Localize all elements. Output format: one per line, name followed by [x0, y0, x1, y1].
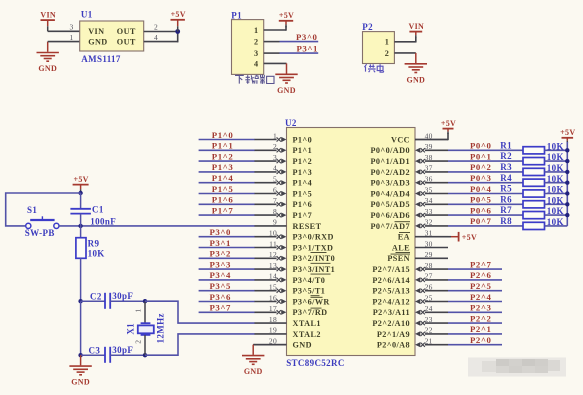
resistor R3 body [523, 168, 545, 175]
junction dot rail row 3 [565, 170, 569, 174]
junction dot rail row 1 [565, 148, 569, 152]
U2 pin 38 (P0^1/AD1) [370, 153, 448, 166]
svg-text:2: 2 [254, 38, 259, 47]
svg-text:2: 2 [273, 142, 277, 151]
junction dot crystal bottom [143, 353, 147, 357]
wire net P2^5 (pin 26) [448, 290, 502, 292]
svg-text:P0^5/AD5: P0^5/AD5 [370, 200, 410, 209]
U2 pin 37 (P0^2/AD2) [370, 164, 448, 177]
svg-text:P3^1/TXD: P3^1/TXD [293, 243, 334, 252]
wire net P3^7 (U2 pin 17) [199, 311, 255, 313]
svg-text:22: 22 [425, 326, 433, 335]
watermark mosaic [468, 358, 566, 377]
svg-text:P2^0/A8: P2^0/A8 [377, 341, 410, 350]
U2 pin 13 (P3^3/INT1) [254, 261, 335, 274]
U2 pin 1 (P1^0) [254, 131, 312, 144]
U2 pin 27 (P2^6/A14) [372, 272, 448, 285]
svg-text:P0^2/AD2: P0^2/AD2 [370, 168, 410, 177]
U2 pin 22 (P2^1/A9) [377, 326, 448, 339]
wire net P3^2 (U2 pin 12) [199, 257, 255, 259]
wire net P0^0 (pin 39) [448, 149, 523, 151]
U2 pin 33 (P0^6/AD6) [370, 207, 448, 220]
svg-text:100nF: 100nF [90, 216, 116, 226]
svg-text:P1^0: P1^0 [212, 130, 234, 140]
svg-text:ALE: ALE [392, 243, 410, 252]
switch S1 (SW-PB) [26, 216, 59, 228]
svg-text:P2^7/A15: P2^7/A15 [372, 265, 410, 274]
U2 pin 3 (P1^2) [254, 153, 312, 166]
U2 pin 11 (P3^1/TXD) [254, 239, 333, 252]
overline EA (pin 31) [399, 232, 410, 234]
U2 pin 4 (P1^3) [254, 164, 312, 177]
ground (P1 pin 4) [275, 63, 297, 95]
wire net P0^2 (pin 37) [448, 171, 523, 173]
junction dot C3 node [78, 353, 82, 357]
power port +5V (EA, sideways) [459, 232, 477, 242]
svg-text:P1^7: P1^7 [212, 205, 234, 215]
U2 pin 16 (P3^6/WR) [254, 293, 329, 306]
wire net P3^0 (U2 pin 10) [199, 236, 255, 238]
wire +5V node to switch (top/left) [6, 193, 81, 226]
power port +5V (pull-up rail) [560, 128, 575, 143]
wire P1 pin 1 to +5V [264, 26, 286, 31]
U2 pin 25 (P2^4/A12) [372, 293, 448, 306]
U2 pin 34 (P0^5/AD5) [370, 196, 448, 209]
svg-text:P2^3: P2^3 [470, 303, 492, 313]
capacitor C2 30pF [81, 293, 145, 309]
U2 pin 20 (GND) [254, 337, 312, 350]
svg-text:1: 1 [385, 38, 390, 47]
svg-text:P1^3: P1^3 [212, 162, 234, 172]
U2 pin 39 (P0^0/AD0) [370, 142, 448, 155]
svg-text:32: 32 [425, 218, 433, 227]
ground (left of U1) [37, 42, 59, 74]
svg-text:4: 4 [154, 33, 158, 42]
wire net P2^7 (pin 28) [448, 268, 502, 270]
svg-text:GND: GND [277, 86, 296, 95]
wire net P1^5 (U2 pin 6) [199, 193, 255, 195]
wire net P2^3 (pin 24) [448, 311, 502, 313]
svg-text:+5V: +5V [462, 233, 477, 242]
svg-text:R1: R1 [500, 140, 512, 150]
crystal X1 12MHz [138, 301, 154, 355]
svg-text:X1: X1 [125, 323, 135, 335]
wire R9 to C3 (left rail) [80, 301, 82, 355]
svg-text:38: 38 [425, 153, 433, 162]
svg-text:GND: GND [406, 75, 425, 84]
U2 pin 40 (VCC) [391, 131, 448, 144]
power port VIN (P2 pin 1) [409, 22, 425, 38]
label 供电 (power supply) [364, 64, 383, 72]
svg-text:VIN: VIN [40, 11, 56, 20]
U2 pin 30 (ALE) [392, 239, 448, 252]
svg-text:17: 17 [269, 304, 277, 313]
wire net P1^0 (U2 pin 1) [199, 139, 255, 141]
svg-text:26: 26 [425, 283, 433, 292]
svg-text:P2^5: P2^5 [470, 281, 492, 291]
svg-text:P1^5: P1^5 [212, 184, 234, 194]
svg-text:7: 7 [273, 196, 277, 205]
svg-text:P3^0/RXD: P3^0/RXD [293, 233, 334, 242]
wire net P2^4 (pin 25) [448, 301, 502, 303]
svg-text:P0^7/AD7: P0^7/AD7 [370, 222, 410, 231]
wire GND to U1 pin 1 [48, 41, 80, 43]
svg-text:XTAL2: XTAL2 [293, 330, 321, 339]
overline PSEN (pin 29) [391, 253, 411, 255]
resistor R4 body [523, 179, 545, 186]
wire net P3^5 (U2 pin 15) [199, 290, 255, 292]
svg-text:P1^2: P1^2 [293, 157, 313, 166]
svg-text:4: 4 [254, 59, 259, 68]
U2 pin 7 (P1^6) [254, 196, 312, 209]
svg-text:P0^0: P0^0 [470, 141, 492, 151]
svg-text:6: 6 [273, 185, 277, 194]
U2 pin 18 (XTAL1) [254, 315, 321, 328]
U2 pin 29 (PSEN) [387, 250, 448, 263]
wire R5 to +5V rail [545, 193, 568, 195]
power port VIN (input rail, top left) [40, 11, 56, 32]
svg-text:28: 28 [425, 261, 433, 270]
wire R6 to +5V rail [545, 203, 568, 205]
svg-text:P1^0: P1^0 [293, 135, 313, 144]
svg-text:R9: R9 [88, 238, 100, 248]
wire net P1^6 (U2 pin 7) [199, 203, 255, 205]
svg-text:1: 1 [69, 33, 73, 42]
resistor R5 body [523, 190, 545, 197]
svg-text:P0^7: P0^7 [470, 216, 492, 226]
svg-text:31: 31 [425, 229, 433, 238]
svg-text:OUT: OUT [117, 38, 136, 47]
wire VIN to U1 pin 3 [48, 30, 80, 32]
U2 pin 15 (P3^5/T1) [254, 283, 325, 296]
svg-text:27: 27 [425, 272, 433, 281]
wire P2 pin 2 to GND [394, 52, 415, 54]
resistor R7 body [523, 212, 545, 219]
svg-text:GND: GND [88, 38, 107, 47]
svg-text:R6: R6 [500, 194, 512, 204]
wire net P1^7 (U2 pin 8) [199, 214, 255, 216]
power port +5V (VCC) [441, 119, 456, 134]
svg-text:10K: 10K [88, 249, 105, 259]
capacitor C1 100nF [70, 193, 91, 226]
svg-text:P2^7: P2^7 [470, 259, 492, 269]
svg-text:P3^0: P3^0 [296, 32, 318, 42]
svg-text:P2^1: P2^1 [470, 324, 491, 334]
resistor R2 body [523, 158, 545, 165]
svg-text:P3^2: P3^2 [210, 249, 232, 259]
svg-text:1: 1 [134, 308, 143, 312]
wire net P0^4 (pin 35) [448, 193, 523, 195]
U2 pin 24 (P2^3/A11) [373, 304, 448, 317]
wire U2 pin 20 to ground [253, 344, 255, 346]
svg-text:P3^2/INT0: P3^2/INT0 [293, 254, 336, 263]
capacitor C3 30pF [81, 347, 145, 363]
wire net P2^1 (pin 22) [448, 333, 502, 335]
svg-text:24: 24 [425, 304, 433, 313]
svg-text:P2^0: P2^0 [470, 335, 492, 345]
svg-text:P3^1: P3^1 [210, 238, 231, 248]
svg-text:R7: R7 [500, 205, 512, 215]
svg-text:P0^1/AD1: P0^1/AD1 [370, 157, 410, 166]
svg-text:2: 2 [154, 23, 158, 32]
svg-text:10: 10 [269, 229, 277, 238]
svg-text:P3^1: P3^1 [297, 44, 318, 54]
wire net P0^1 (pin 38) [448, 160, 523, 162]
wire net P0^5 (pin 34) [448, 203, 523, 205]
svg-text:12MHz: 12MHz [155, 313, 165, 343]
underline INT1 (pin 13) [311, 273, 331, 275]
U2 pin 6 (P1^5) [254, 185, 312, 198]
svg-text:GND: GND [71, 378, 90, 387]
junction dot rail row 6 [565, 202, 569, 206]
overline RD (pin 17) [311, 307, 322, 309]
junction dot rail row 5 [565, 191, 569, 195]
wire net P0^7 (pin 32) [448, 225, 523, 227]
connector P1 body [232, 20, 264, 75]
svg-text:P3^0: P3^0 [210, 227, 232, 237]
U2 pin 26 (P2^5/A13) [372, 283, 448, 296]
svg-text:11: 11 [269, 239, 277, 248]
svg-text:OUT: OUT [117, 27, 136, 36]
svg-text:P3^4/T0: P3^4/T0 [293, 276, 326, 285]
svg-text:21: 21 [425, 337, 433, 346]
resistor R9 10K [76, 226, 86, 301]
svg-text:GND: GND [244, 367, 263, 376]
svg-text:R2: R2 [500, 151, 512, 161]
svg-text:S1: S1 [27, 205, 37, 215]
overline WR (pin 16) [311, 296, 323, 298]
svg-text:P3^7: P3^7 [210, 303, 232, 313]
svg-text:VIN: VIN [88, 27, 104, 36]
svg-text:3: 3 [254, 49, 259, 58]
junction dot rail row 4 [565, 181, 569, 185]
svg-text:P0^2: P0^2 [470, 162, 492, 172]
svg-text:+5V: +5V [279, 11, 294, 20]
svg-text:P2^1/A9: P2^1/A9 [377, 330, 410, 339]
wire net P1^2 (U2 pin 3) [199, 160, 255, 162]
svg-text:14: 14 [269, 272, 277, 281]
U2 pin 35 (P0^4/AD4) [370, 185, 448, 198]
svg-text:P1^5: P1^5 [293, 189, 313, 198]
wire net P3^6 (U2 pin 16) [199, 301, 255, 303]
svg-text:SW-PB: SW-PB [25, 228, 55, 238]
U2 pin 28 (P2^7/A15) [372, 261, 448, 274]
wire R7 to +5V rail [545, 214, 568, 216]
svg-text:36: 36 [425, 175, 433, 184]
svg-text:P3^6/WR: P3^6/WR [293, 297, 330, 306]
wire crystal top to XTAL1 (pin 18) [145, 301, 255, 323]
wire R1 to +5V rail [545, 149, 568, 151]
svg-text:30pF: 30pF [112, 345, 133, 355]
wire EA (pin 31) to +5V [448, 236, 459, 238]
svg-text:AMS1117: AMS1117 [81, 54, 121, 64]
svg-text:P3^3: P3^3 [210, 259, 232, 269]
svg-text:P2^2: P2^2 [470, 313, 492, 323]
svg-text:+5V: +5V [73, 175, 88, 184]
svg-text:23: 23 [425, 315, 433, 324]
resistor R6 body [523, 201, 545, 208]
U2 pin 2 (P1^1) [254, 142, 312, 155]
svg-text:2: 2 [134, 340, 143, 344]
wire net P2^2 (pin 23) [448, 322, 502, 324]
svg-text:16: 16 [269, 293, 277, 302]
U2 pin 19 (XTAL2) [254, 326, 321, 339]
U2 pin 36 (P0^3/AD3) [370, 175, 448, 188]
U2 pin 17 (P3^7/RD) [254, 304, 327, 317]
svg-text:P0^3/AD3: P0^3/AD3 [370, 179, 410, 188]
wire R8 to +5V rail [545, 225, 568, 227]
wire P2 pin 1 to VIN [394, 37, 415, 43]
svg-text:P0^6/AD6: P0^6/AD6 [370, 211, 410, 220]
U2 pin 23 (P2^2/A10) [372, 315, 448, 328]
svg-text:P0^1: P0^1 [470, 151, 491, 161]
wire net P0^3 (pin 36) [448, 182, 523, 184]
svg-text:P1^4: P1^4 [212, 173, 234, 183]
resistor R8 body [523, 222, 545, 229]
svg-text:P0^6: P0^6 [470, 205, 492, 215]
wire net P1^3 (U2 pin 4) [199, 171, 255, 173]
svg-text:+5V: +5V [441, 119, 456, 128]
svg-text:P2^2/A10: P2^2/A10 [372, 319, 410, 328]
svg-text:34: 34 [425, 196, 433, 205]
svg-text:P0^0/AD0: P0^0/AD0 [370, 146, 410, 155]
ground (U2 pin 20) [242, 345, 287, 377]
svg-text:3: 3 [273, 153, 277, 162]
svg-text:R5: R5 [500, 184, 512, 194]
svg-text:25: 25 [425, 293, 433, 302]
svg-text:R4: R4 [500, 173, 512, 183]
ground (crystal/C3) [69, 355, 91, 387]
svg-text:30pF: 30pF [112, 291, 133, 301]
svg-text:30: 30 [425, 239, 433, 248]
connector P2 body [363, 32, 395, 64]
svg-text:37: 37 [425, 164, 433, 173]
wire net P2^0 (pin 21) [448, 344, 502, 346]
svg-text:GND: GND [293, 341, 312, 350]
svg-text:P1^7: P1^7 [293, 211, 313, 220]
svg-text:+5V: +5V [171, 10, 186, 19]
wire U1 pin 2 to +5V node [144, 31, 178, 33]
power port +5V (P1 pin 1) [279, 11, 294, 27]
wire R4 to +5V rail [545, 182, 568, 184]
svg-text:35: 35 [425, 185, 433, 194]
wire U1 pin 4 up to +5V node [144, 32, 178, 43]
junction dot U1 output [175, 29, 180, 34]
svg-text:9: 9 [273, 218, 277, 227]
wire P1 pin 2 (net P3^0) [264, 41, 319, 43]
wire net P3^1 (U2 pin 11) [199, 247, 255, 249]
U2 pin 31 (EA) [398, 229, 448, 242]
svg-text:RESET: RESET [293, 222, 322, 231]
power port +5V (reset circuit) [73, 175, 89, 193]
svg-text:P0^4/AD4: P0^4/AD4 [370, 189, 410, 198]
svg-text:P1^1: P1^1 [293, 146, 313, 155]
U2 pin 14 (P3^4/T0) [254, 272, 325, 285]
junction dot crystal top [143, 299, 147, 303]
svg-text:15: 15 [269, 283, 277, 292]
wire crystal bottom to XTAL2 (pin 19) [145, 334, 255, 355]
svg-text:P2^4: P2^4 [470, 292, 492, 302]
svg-text:P3^7/RD: P3^7/RD [293, 308, 328, 317]
svg-text:5: 5 [273, 175, 277, 184]
svg-text:R8: R8 [500, 216, 512, 226]
svg-text:P3^6: P3^6 [210, 292, 232, 302]
U2 pin 12 (P3^2/INT0) [254, 250, 335, 263]
svg-text:U1: U1 [81, 10, 93, 20]
wire R2 to +5V rail [545, 160, 568, 162]
svg-text:P3^5: P3^5 [210, 281, 232, 291]
svg-text:12: 12 [269, 250, 277, 259]
svg-text:P1^1: P1^1 [212, 141, 233, 151]
wire P1 pin 4 to GND [264, 62, 287, 64]
wire R3 to +5V rail [545, 171, 568, 173]
overline AD7 (pin 32) [395, 221, 411, 223]
svg-text:P2^5/A13: P2^5/A13 [372, 287, 410, 296]
underline ALE (pin 30) [396, 252, 411, 254]
junction dot C2 node [78, 299, 82, 303]
junction dot reset node [78, 224, 82, 228]
U2 pin 9 (RESET) [254, 218, 321, 231]
wire VCC (pin 40) to +5V [415, 133, 448, 140]
wire net P2^6 (pin 27) [448, 279, 502, 281]
svg-text:XTAL1: XTAL1 [293, 319, 321, 328]
junction dot rail row 2 [565, 159, 569, 163]
underline INT0 (pin 12) [311, 262, 331, 264]
U2 pin 10 (P3^0/RXD) [254, 229, 334, 242]
svg-text:R3: R3 [500, 162, 512, 172]
svg-text:P2^4/A12: P2^4/A12 [372, 297, 410, 306]
svg-text:P1^2: P1^2 [212, 151, 234, 161]
svg-text:P3^4: P3^4 [210, 270, 232, 280]
svg-text:P3^5/T1: P3^5/T1 [293, 287, 326, 296]
wire net P1^1 (U2 pin 2) [199, 149, 255, 151]
wire net P0^6 (pin 33) [448, 214, 523, 216]
svg-text:1: 1 [254, 26, 259, 35]
wire net P1^4 (U2 pin 5) [199, 182, 255, 184]
svg-text:13: 13 [269, 261, 277, 270]
junction dot +5V/C1/S1 node [78, 191, 82, 195]
svg-text:VIN: VIN [409, 22, 425, 31]
svg-text:18: 18 [269, 315, 277, 324]
svg-text:P2^3/A11: P2^3/A11 [373, 308, 410, 317]
U2 pin 21 (P2^0/A8) [377, 337, 448, 350]
svg-text:4: 4 [273, 164, 277, 173]
wire P1 pin 3 (net P3^1) [264, 52, 319, 54]
svg-text:P0^4: P0^4 [470, 184, 492, 194]
svg-text:P1: P1 [231, 10, 242, 20]
svg-text:P1^4: P1^4 [293, 179, 313, 188]
svg-text:GND: GND [38, 64, 57, 73]
svg-text:P3^3/INT1: P3^3/INT1 [293, 265, 336, 274]
underline T1 (pin 15) [311, 295, 320, 297]
junction dot rail row 7 [565, 213, 569, 217]
U2 pin 8 (P1^7) [254, 207, 312, 220]
svg-text:39: 39 [425, 142, 433, 151]
regulator U1 body [80, 21, 144, 51]
wire net P3^4 (U2 pin 14) [199, 279, 255, 281]
svg-text:P0^5: P0^5 [470, 195, 492, 205]
power port +5V (U1 output) [171, 10, 186, 31]
wire RESET net (switch to U2 pin 9) [59, 225, 254, 227]
svg-text:P1^6: P1^6 [293, 200, 313, 209]
wire net P3^3 (U2 pin 13) [199, 268, 255, 270]
MCU U2 body [287, 128, 416, 356]
svg-text:P1^3: P1^3 [293, 168, 313, 177]
svg-text:P2^6: P2^6 [470, 270, 492, 280]
svg-text:EA: EA [398, 233, 410, 242]
svg-text:PSEN: PSEN [387, 254, 410, 263]
svg-text:2: 2 [385, 49, 390, 58]
